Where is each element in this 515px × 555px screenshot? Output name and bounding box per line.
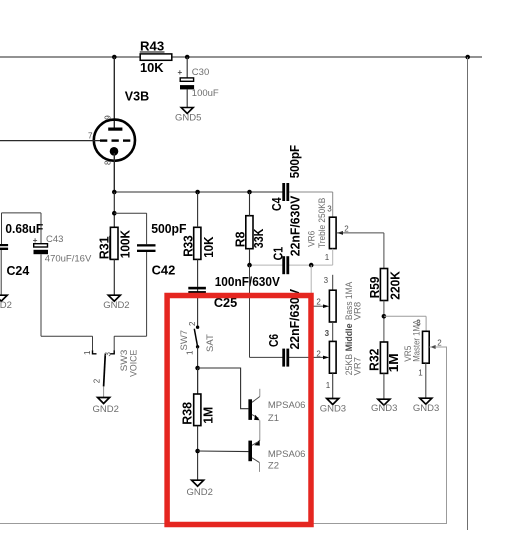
svg-text:+: + xyxy=(33,236,38,245)
node junction R33 top xyxy=(195,190,200,195)
svg-text:10K: 10K xyxy=(140,61,164,75)
ground GND2 under R38 xyxy=(187,480,213,498)
svg-text:2: 2 xyxy=(316,298,321,307)
svg-text:220K: 220K xyxy=(388,271,402,300)
resistor R33 xyxy=(182,192,216,287)
svg-text:V3B: V3B xyxy=(125,90,149,104)
svg-text:C6: C6 xyxy=(267,334,281,347)
resistor R59 xyxy=(368,233,402,342)
ground GND2 under SW3 xyxy=(93,398,119,415)
svg-text:C43: C43 xyxy=(46,234,63,245)
svg-text:R59: R59 xyxy=(368,277,382,299)
node R38 bottom junction xyxy=(195,449,200,454)
svg-text:R38: R38 xyxy=(181,402,195,425)
ground GND3 under VR7 xyxy=(320,399,346,415)
svg-text:GND5: GND5 xyxy=(175,113,201,124)
svg-text:2: 2 xyxy=(188,321,197,326)
svg-text:R8: R8 xyxy=(233,232,247,248)
svg-text:22nF/630V: 22nF/630V xyxy=(289,195,303,256)
svg-text:3: 3 xyxy=(327,204,332,213)
svg-text:Z1: Z1 xyxy=(268,413,279,424)
capacitor C42 xyxy=(137,222,187,336)
wire cathode bus xyxy=(114,191,283,193)
svg-text:470uF/16V: 470uF/16V xyxy=(45,254,92,265)
wire C4 to VR6 pin 3 xyxy=(289,191,333,193)
svg-text:0.68uF: 0.68uF xyxy=(5,222,43,236)
svg-text:MPSA06: MPSA06 xyxy=(268,400,306,411)
svg-text:1: 1 xyxy=(325,253,330,262)
resistor R43 xyxy=(140,39,172,75)
wire branch to C42 xyxy=(114,212,146,214)
transistor Z2 xyxy=(248,440,305,472)
svg-text:C4: C4 xyxy=(270,197,284,211)
svg-text:SAT: SAT xyxy=(205,334,216,352)
wire junction down to C6 xyxy=(249,265,251,357)
node R59-R32 junction xyxy=(382,314,387,319)
svg-text:GND2: GND2 xyxy=(93,404,119,415)
transistor Z1 xyxy=(248,389,305,424)
svg-text:1: 1 xyxy=(326,381,331,390)
resistor R32 xyxy=(368,342,402,399)
resistor R31 xyxy=(97,227,132,295)
wire C43 to SW3 pin 1 xyxy=(41,335,93,337)
svg-text:C42: C42 xyxy=(152,264,176,278)
svg-text:VR8: VR8 xyxy=(352,302,363,320)
wire top bus xyxy=(0,56,482,58)
svg-text:10K: 10K xyxy=(202,236,216,257)
wire C1 to VR6 pin 1 xyxy=(289,264,333,266)
op-amp: vacuum tube V3B xyxy=(0,57,149,192)
wire C6 to VR7 wiper xyxy=(289,356,326,358)
svg-text:GND3: GND3 xyxy=(413,403,439,414)
svg-text:VOICE: VOICE xyxy=(128,350,139,377)
node junction tube anode to top bus xyxy=(112,55,117,60)
wire Z1 base feed xyxy=(198,368,249,409)
node junction top-right rail xyxy=(465,55,470,60)
wire Z2 base feed xyxy=(198,450,249,453)
ground GND2 under R31 xyxy=(103,295,129,311)
svg-text:C25: C25 xyxy=(214,296,237,310)
capacitor C25 xyxy=(188,275,280,327)
svg-text:2: 2 xyxy=(437,338,442,347)
svg-text:1M: 1M xyxy=(387,353,401,372)
svg-text:R33: R33 xyxy=(182,235,196,257)
node junction R43-C30 xyxy=(185,55,190,60)
ground GND5 xyxy=(175,108,201,124)
svg-text:500pF: 500pF xyxy=(288,145,302,179)
node junction R8 top xyxy=(247,190,252,195)
svg-text:3: 3 xyxy=(103,352,112,357)
svg-text:Z2: Z2 xyxy=(268,460,279,471)
capacitor C24 xyxy=(0,213,44,295)
wire R8 bottom to C1 xyxy=(250,264,284,266)
svg-text:C1: C1 xyxy=(272,247,286,261)
wire C42 to SW3 pin 3 xyxy=(114,335,146,337)
svg-text:7: 7 xyxy=(88,131,93,140)
svg-text:500pF: 500pF xyxy=(151,222,187,236)
svg-text:9: 9 xyxy=(104,115,113,120)
node junction VR8 wiper branch xyxy=(309,263,314,268)
wire bottom bus xyxy=(0,523,447,525)
svg-text:100nF/630V: 100nF/630V xyxy=(215,275,281,289)
svg-text:Master 1MA: Master 1MA xyxy=(411,319,422,362)
capacitor C1 xyxy=(272,195,303,274)
svg-text:C30: C30 xyxy=(192,67,209,78)
svg-text:100uF: 100uF xyxy=(192,88,219,99)
svg-text:GND3: GND3 xyxy=(320,404,346,415)
svg-text:Treble 250KB: Treble 250KB xyxy=(317,198,328,248)
svg-text:GND2: GND2 xyxy=(103,300,129,311)
svg-text:3: 3 xyxy=(325,329,330,338)
capacitor C6 xyxy=(267,288,302,366)
resistor R8 xyxy=(233,192,266,265)
svg-text:SW7: SW7 xyxy=(179,330,190,351)
wire junction down to VR8 wiper xyxy=(310,265,312,306)
wire Z1 emitter to Z2 collector xyxy=(259,420,261,440)
svg-text:33K: 33K xyxy=(252,229,266,249)
node junction R31 top / C42 branch xyxy=(112,211,117,216)
svg-text:C24: C24 xyxy=(7,264,30,278)
svg-text:2: 2 xyxy=(93,378,102,383)
svg-text:100K: 100K xyxy=(118,230,132,258)
potentiometer VR6 xyxy=(307,198,384,265)
svg-text:1M: 1M xyxy=(202,407,216,424)
svg-text:MPSA06: MPSA06 xyxy=(268,449,306,460)
ground GND3 under R32 xyxy=(371,399,397,414)
ground GND3 under VR5 xyxy=(413,398,439,414)
capacitor C30 xyxy=(178,57,219,108)
svg-text:2: 2 xyxy=(344,225,349,234)
wire bus to R31 xyxy=(113,192,115,227)
svg-text:GND2: GND2 xyxy=(0,300,12,311)
svg-text:3: 3 xyxy=(324,276,329,285)
resistor R38 xyxy=(181,368,216,480)
capacitor C4 xyxy=(270,145,302,211)
ground GND2 under C24 xyxy=(0,295,12,311)
switch SW7 SAT xyxy=(179,321,216,394)
node junction R8 bottom xyxy=(247,263,252,268)
red highlight rectangle xyxy=(167,296,311,525)
svg-text:1: 1 xyxy=(83,350,92,355)
potentiometer VR7 xyxy=(316,322,363,398)
node junction cathode bus left xyxy=(112,190,117,195)
svg-text:GND3: GND3 xyxy=(371,403,397,414)
svg-text:+: + xyxy=(178,68,183,77)
svg-text:1: 1 xyxy=(418,369,423,378)
wire VR5 wiper to bottom bus xyxy=(446,347,448,524)
svg-text:VR7: VR7 xyxy=(352,357,363,375)
switch SW3 VOICE xyxy=(83,350,139,398)
wire right rail xyxy=(467,57,469,530)
svg-text:8: 8 xyxy=(104,160,113,165)
potentiometer VR8 xyxy=(316,275,363,322)
capacitor C43 xyxy=(33,213,92,336)
svg-text:R32: R32 xyxy=(368,349,382,371)
wire junction to VR5 pin 3 xyxy=(384,315,426,317)
svg-text:R43: R43 xyxy=(140,39,164,53)
svg-text:2: 2 xyxy=(316,350,321,359)
svg-text:GND2: GND2 xyxy=(187,487,213,498)
node SW7 output junction xyxy=(195,366,200,371)
potentiometer VR5 xyxy=(403,318,447,398)
